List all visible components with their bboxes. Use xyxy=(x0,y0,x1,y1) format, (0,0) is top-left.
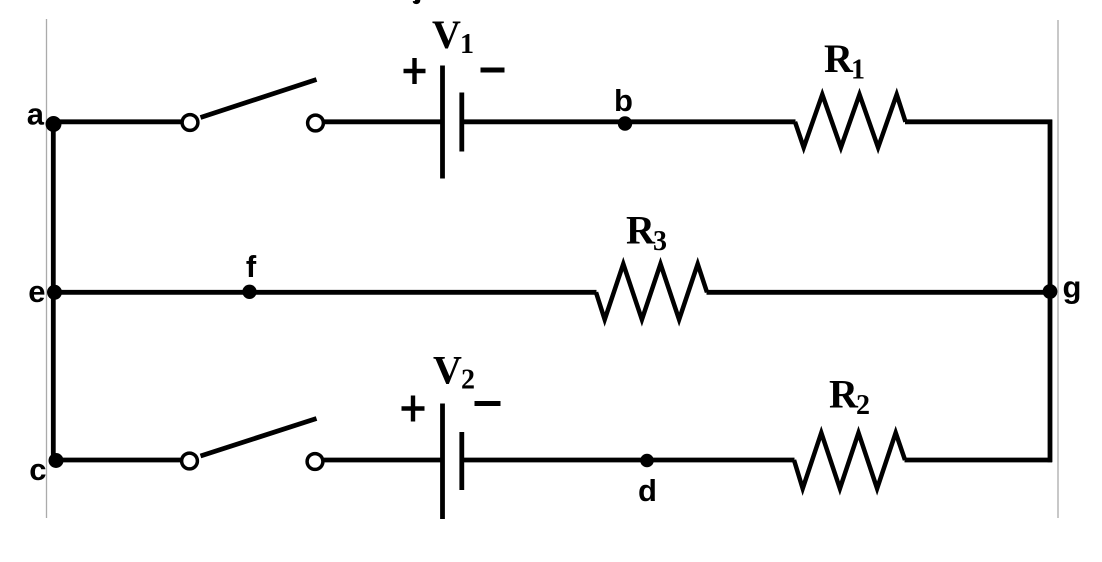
svg-text:V: V xyxy=(433,348,462,393)
svg-text:1: 1 xyxy=(460,29,474,60)
resistor R3 xyxy=(596,264,707,320)
V2 positive plate xyxy=(440,404,445,520)
node b xyxy=(618,116,632,130)
wire: node c to switch S2 xyxy=(54,458,182,463)
node c xyxy=(49,453,64,468)
V2 negative plate xyxy=(459,432,464,490)
wire: battery V2 through node d to resistor R2 xyxy=(464,458,795,463)
wire: resistor R2 to bottom-right corner xyxy=(905,458,1053,463)
node g xyxy=(1043,284,1058,299)
svg-text:g: g xyxy=(1063,270,1082,305)
svg-text:V: V xyxy=(432,12,461,57)
V1 negative plate xyxy=(459,93,464,152)
node f xyxy=(242,285,256,299)
svg-text:a: a xyxy=(27,97,45,132)
wire: resistor R3 to node g xyxy=(707,290,1053,295)
wire: resistor R1 to top-right corner xyxy=(905,119,1052,124)
wire: right vertical (top corner - g - bottom corner) xyxy=(1048,120,1053,463)
battery V2 xyxy=(402,348,501,520)
svg-text:b: b xyxy=(614,83,633,118)
V2 plus sign xyxy=(402,406,425,410)
switch S1 (open, top branch) xyxy=(182,80,323,131)
svg-text:d: d xyxy=(638,473,657,508)
switch S2 (open, bottom branch) xyxy=(182,419,323,470)
svg-text:R: R xyxy=(824,36,854,81)
wire: switch S1 to battery V1 xyxy=(325,119,442,124)
wire: node e through node f to resistor R3 xyxy=(52,290,597,295)
node a xyxy=(46,116,62,132)
axis spine left xyxy=(46,19,48,518)
wire: left vertical (a-e-c) xyxy=(51,122,56,461)
svg-text:e: e xyxy=(28,274,45,309)
svg-text:R: R xyxy=(626,208,656,253)
V1 minus sign xyxy=(481,68,505,73)
V1 plus sign xyxy=(404,69,426,73)
V2 minus sign xyxy=(475,401,501,406)
battery V1 xyxy=(404,12,505,179)
V1 positive plate xyxy=(440,66,445,179)
wire: switch S2 to battery V2 xyxy=(324,458,441,463)
svg-text:2: 2 xyxy=(856,390,870,421)
cropped title glyph (bottom of a letter y) xyxy=(413,0,421,4)
svg-text:R: R xyxy=(829,372,859,417)
svg-text:1: 1 xyxy=(851,55,865,86)
wire: battery V1 through node b to resistor R1 xyxy=(464,119,796,124)
resistor R1 xyxy=(795,95,906,148)
svg-text:2: 2 xyxy=(461,365,475,396)
svg-text:3: 3 xyxy=(653,226,667,257)
svg-text:f: f xyxy=(246,249,257,284)
wire: node a to switch S1 xyxy=(51,119,182,124)
resistor R2 xyxy=(794,433,905,489)
axis spine right xyxy=(1057,20,1059,518)
node e xyxy=(47,285,62,300)
svg-text:c: c xyxy=(29,452,46,487)
node d xyxy=(640,454,654,468)
